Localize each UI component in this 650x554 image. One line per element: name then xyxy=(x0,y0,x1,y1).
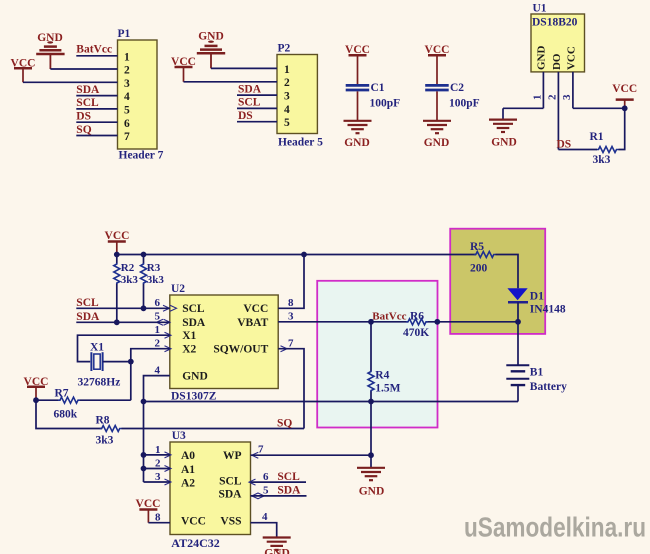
svg-text:Battery: Battery xyxy=(530,381,567,393)
node A0 junction xyxy=(141,452,147,458)
svg-text:SDA: SDA xyxy=(277,485,301,497)
svg-text:BatVcc: BatVcc xyxy=(76,44,112,56)
svg-text:1: 1 xyxy=(155,444,161,456)
svg-text:3: 3 xyxy=(288,311,294,323)
svg-text:Header 5: Header 5 xyxy=(278,137,323,149)
svg-text:C2: C2 xyxy=(450,82,464,94)
wire SQ row up to U2 SQW/OUT pin7 xyxy=(278,349,304,429)
svg-text:SDA: SDA xyxy=(76,84,100,96)
resistor R4 xyxy=(368,322,401,402)
wire X2 junction down to R7 row xyxy=(130,362,132,401)
svg-text:B1: B1 xyxy=(530,366,544,378)
resistor R2 xyxy=(114,255,139,323)
wire VCC to P1 pin3 xyxy=(23,81,118,83)
svg-text:470K: 470K xyxy=(403,327,429,339)
wire SCL to P1 pin5 xyxy=(76,108,117,110)
svg-text:3k3: 3k3 xyxy=(121,274,139,286)
svg-text:U3: U3 xyxy=(172,430,186,442)
wire U2 X1 pin to crystal xyxy=(78,335,170,361)
svg-text:SDA: SDA xyxy=(238,83,262,95)
wire SDA to P1 pin4 xyxy=(76,95,117,97)
pin 1 of U1 xyxy=(542,72,544,108)
svg-text:DS18B20: DS18B20 xyxy=(532,17,578,29)
wire DS to P1 pin6 xyxy=(76,121,117,123)
svg-text:GND: GND xyxy=(424,137,450,149)
battery B1 xyxy=(506,365,567,393)
node GND pin4 / bottom rail junction xyxy=(141,399,147,405)
svg-text:X1: X1 xyxy=(90,342,104,354)
svg-text:A1: A1 xyxy=(181,464,195,476)
wire X2 junction up to U2 X2 pin xyxy=(131,349,170,362)
node R2/SDA junction xyxy=(114,319,120,325)
ground (center bottom) xyxy=(357,455,385,497)
svg-text:3k3: 3k3 xyxy=(147,274,165,286)
wire VCC to P2 pin2 xyxy=(184,81,278,83)
node R4 bottom / GND drop junction xyxy=(368,399,374,405)
power VCC (above C1) xyxy=(345,44,370,84)
svg-text:SCL: SCL xyxy=(277,471,300,483)
svg-text:1: 1 xyxy=(124,51,130,63)
wire SCL to P2 pin4 xyxy=(237,107,277,109)
ground (left of U1) xyxy=(489,120,517,149)
wire C1 to ground xyxy=(357,91,359,120)
svg-text:3k3: 3k3 xyxy=(593,154,611,166)
wire SDA to U2 pin5 xyxy=(76,321,170,323)
svg-text:U2: U2 xyxy=(171,283,185,295)
svg-text:SCL: SCL xyxy=(219,476,242,488)
svg-text:2: 2 xyxy=(547,94,559,100)
svg-text:X1: X1 xyxy=(182,330,196,342)
svg-text:1.5M: 1.5M xyxy=(375,383,400,395)
crystal X1 xyxy=(78,342,121,389)
svg-text:7: 7 xyxy=(124,131,130,143)
node VCC/R1 junction xyxy=(622,105,628,111)
svg-text:100pF: 100pF xyxy=(449,98,480,110)
svg-text:3k3: 3k3 xyxy=(96,434,114,446)
node R4 top junction xyxy=(368,319,374,325)
connector P2 xyxy=(277,43,323,149)
svg-text:200: 200 xyxy=(470,262,488,274)
ground (below C2) xyxy=(423,121,451,149)
node A1 junction xyxy=(141,466,147,472)
wire SDA to P2 pin3 xyxy=(237,94,277,96)
svg-text:SDA: SDA xyxy=(182,317,206,329)
power VCC (left of P2) xyxy=(171,56,196,82)
wire D1 to BatVcc row xyxy=(517,302,519,322)
pin 6 arrows (SCL) xyxy=(163,305,170,311)
wire A2 xyxy=(144,481,171,483)
svg-text:C1: C1 xyxy=(371,82,385,94)
wire A0 xyxy=(144,454,171,456)
wire battery top xyxy=(517,322,519,365)
svg-text:3: 3 xyxy=(284,91,290,103)
svg-text:1: 1 xyxy=(284,64,290,76)
svg-text:2: 2 xyxy=(284,77,290,89)
svg-text:GND: GND xyxy=(536,46,548,71)
svg-text:SCL: SCL xyxy=(182,303,205,315)
power VCC (left of P1) xyxy=(11,58,36,83)
ground (below VSS) xyxy=(263,538,291,554)
svg-text:Header 7: Header 7 xyxy=(119,150,164,162)
node D1/battery junction xyxy=(515,319,521,325)
eeprom U3 xyxy=(170,430,251,550)
wire SCL to U2 pin6 xyxy=(76,307,170,309)
power VCC (above rail) xyxy=(105,230,130,255)
svg-text:VCC: VCC xyxy=(243,303,268,315)
svg-text:DS: DS xyxy=(557,139,572,151)
svg-text:VCC: VCC xyxy=(566,46,578,70)
capacitor C2 xyxy=(425,82,479,110)
svg-text:6: 6 xyxy=(263,471,269,483)
pin 3 of U1 xyxy=(572,72,574,108)
highlight box (cyan, around R4/R6) xyxy=(317,281,437,428)
svg-text:4: 4 xyxy=(124,91,130,103)
wire SCL stub (U3) xyxy=(251,481,307,483)
svg-text:7: 7 xyxy=(258,443,264,455)
svg-text:DO: DO xyxy=(551,53,563,70)
pin arrows U3 xyxy=(165,452,172,458)
ground (top-left, above P1 pin2) xyxy=(36,32,64,69)
node VCC/R7/R8 junction xyxy=(33,397,39,403)
capacitor C1 xyxy=(346,82,400,110)
diode D1 xyxy=(507,288,565,315)
resistor R8 xyxy=(96,414,305,446)
resistor R1 xyxy=(590,131,619,166)
node rail/R3 xyxy=(141,252,147,258)
rtc U2 xyxy=(170,283,278,403)
svg-text:5: 5 xyxy=(263,485,269,497)
resistor R6 xyxy=(403,310,429,339)
svg-text:R3: R3 xyxy=(147,262,161,274)
power VCC (left of U3 pin8) xyxy=(136,498,161,523)
node rail/R2 xyxy=(114,252,120,258)
wire battery bottom to GND rail xyxy=(517,385,519,401)
svg-text:SCL: SCL xyxy=(238,97,261,109)
wire VCC junction down to R8 row xyxy=(36,400,102,428)
wire VCC node down to R1 xyxy=(619,108,625,149)
wire U2 VCC pin8 to rail xyxy=(278,255,304,309)
svg-text:6: 6 xyxy=(155,297,161,309)
svg-text:BatVcc: BatVcc xyxy=(372,310,406,322)
svg-text:P1: P1 xyxy=(118,28,131,40)
wire U2 GND pin4 left and down xyxy=(144,376,170,482)
svg-text:5: 5 xyxy=(284,117,290,129)
pin 5 arrows (SDA, bidir) xyxy=(164,319,171,325)
wire GND to P2 pin1 xyxy=(211,67,277,69)
svg-text:R2: R2 xyxy=(121,262,135,274)
pin 2 of U1 xyxy=(557,72,559,150)
svg-text:A2: A2 xyxy=(181,477,195,489)
node WP/GND junction xyxy=(368,452,374,458)
svg-text:680k: 680k xyxy=(54,408,78,420)
svg-text:IN4148: IN4148 xyxy=(530,303,566,315)
wire crystal to X2 junction xyxy=(103,361,131,363)
svg-text:DS: DS xyxy=(238,110,253,122)
power VCC (left, above R7) xyxy=(24,376,49,400)
connector P1 xyxy=(118,28,164,162)
wire C2 to ground xyxy=(436,91,438,120)
sensor U1 xyxy=(531,3,585,72)
svg-text:8: 8 xyxy=(155,512,161,524)
svg-text:VCC: VCC xyxy=(105,230,130,242)
svg-text:3: 3 xyxy=(561,94,573,100)
svg-text:100pF: 100pF xyxy=(370,98,401,110)
svg-text:R4: R4 xyxy=(375,369,389,381)
node R3/SCL junction xyxy=(141,305,147,311)
wire GND drop down to GND symbol xyxy=(370,402,372,456)
svg-text:GND: GND xyxy=(264,548,290,554)
svg-text:SDA: SDA xyxy=(218,489,242,501)
svg-text:SQW/OUT: SQW/OUT xyxy=(213,344,268,356)
ground (below C1) xyxy=(344,121,372,149)
svg-text:VCC: VCC xyxy=(181,516,206,528)
svg-text:P2: P2 xyxy=(278,43,291,55)
svg-text:D1: D1 xyxy=(530,290,544,302)
svg-text:SQ: SQ xyxy=(76,124,91,136)
wire R5 to D1 xyxy=(496,255,519,289)
wire R1 to DS (pin2) xyxy=(558,149,597,151)
pin 2 arrow (X2) xyxy=(165,346,172,352)
wire DS to P2 pin5 xyxy=(237,121,277,123)
svg-text:R8: R8 xyxy=(96,414,110,426)
wire VCC to U3 pin8 xyxy=(148,522,170,524)
svg-text:uSamodelkina.ru: uSamodelkina.ru xyxy=(464,512,646,543)
wire VSS to ground xyxy=(251,523,277,537)
svg-text:GND: GND xyxy=(359,485,385,497)
wire SDA stub (U3) xyxy=(251,495,307,497)
svg-text:2: 2 xyxy=(155,457,161,469)
svg-text:3: 3 xyxy=(124,78,130,90)
svg-text:VSS: VSS xyxy=(220,516,241,528)
resistor R3 xyxy=(141,255,165,309)
svg-text:R1: R1 xyxy=(590,131,604,143)
node crystal/X2/R7 junction xyxy=(128,359,134,365)
wire BatVcc to P1 pin1 xyxy=(76,55,117,57)
svg-text:5: 5 xyxy=(155,311,161,323)
svg-text:6: 6 xyxy=(124,118,130,130)
ground (above P2 pin1) xyxy=(197,31,225,69)
svg-text:SCL: SCL xyxy=(76,97,99,109)
svg-text:X2: X2 xyxy=(182,344,196,356)
svg-text:32768Hz: 32768Hz xyxy=(78,376,121,388)
svg-text:A0: A0 xyxy=(181,450,195,462)
wire VCC rail xyxy=(117,254,476,256)
svg-text:SDA: SDA xyxy=(76,311,100,323)
svg-text:4: 4 xyxy=(262,511,268,523)
svg-text:SQ: SQ xyxy=(277,417,292,429)
svg-text:WP: WP xyxy=(223,450,242,462)
svg-text:VBAT: VBAT xyxy=(237,317,268,329)
pin 1 arrow (X1) xyxy=(165,332,172,338)
svg-text:VCC: VCC xyxy=(136,498,161,510)
wire WP to GND drop xyxy=(251,454,372,456)
svg-text:U1: U1 xyxy=(533,3,547,15)
node R6 right junction xyxy=(434,319,440,325)
node rail/U2 VCC xyxy=(301,252,307,258)
power VCC (right of U1) xyxy=(612,83,637,108)
wire A1 xyxy=(144,468,171,470)
wire pin1 to ground xyxy=(503,107,543,109)
svg-text:4: 4 xyxy=(284,104,290,116)
pin 7 arrow (SQW/OUT) xyxy=(281,346,288,352)
svg-text:SCL: SCL xyxy=(76,297,99,309)
svg-text:GND: GND xyxy=(344,137,370,149)
power VCC (above C2) xyxy=(425,44,450,84)
resistor R7 xyxy=(36,388,131,421)
svg-text:DS: DS xyxy=(76,111,91,123)
svg-text:VCC: VCC xyxy=(612,83,637,95)
wire bottom GND rail xyxy=(144,401,519,403)
highlight box (olive, around R5/D1) xyxy=(450,229,545,334)
resistor R5 xyxy=(470,241,496,274)
wire pin3 to VCC node xyxy=(573,107,625,109)
wire U2 VBAT pin3 to battery node xyxy=(278,321,518,323)
svg-text:AT24C32: AT24C32 xyxy=(171,536,219,550)
wire GND to P1 pin2 xyxy=(50,68,117,70)
svg-text:2: 2 xyxy=(124,65,130,77)
svg-text:GND: GND xyxy=(491,137,517,149)
wire SQ to P1 pin7 xyxy=(76,135,117,137)
svg-text:8: 8 xyxy=(288,297,294,309)
svg-text:5: 5 xyxy=(124,105,130,117)
svg-text:1: 1 xyxy=(532,95,544,101)
svg-text:GND: GND xyxy=(182,371,208,383)
